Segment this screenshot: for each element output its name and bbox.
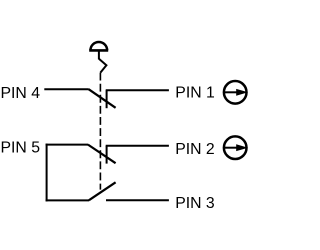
fixed contact tick row 1	[106, 90, 108, 108]
wire PIN 4 left	[44, 88, 89, 90]
actuator spring zigzag	[99, 59, 107, 73]
wire PIN 5 left	[46, 144, 89, 146]
wire bracket bottom horizontal	[46, 199, 90, 201]
wire PIN 2 right	[106, 145, 169, 147]
contact blade row 1 (NC)	[89, 89, 116, 108]
icon circled arrow row 2	[224, 136, 248, 159]
pushbutton actuator head (mushroom dome)	[89, 42, 108, 50]
svg-text:PIN 2: PIN 2	[175, 141, 215, 158]
contact blade row 2 (NC)	[88, 145, 116, 164]
wire PIN 3 right	[106, 199, 169, 201]
fixed contact tick row 2	[106, 146, 108, 164]
icon circled arrow row 1	[224, 81, 248, 104]
contact blade row 3 (NO)	[89, 182, 116, 200]
svg-text:PIN 1: PIN 1	[175, 84, 215, 101]
wire bracket vertical (PIN 5 to bottom contact)	[46, 144, 48, 202]
svg-text:PIN 3: PIN 3	[175, 195, 215, 212]
svg-text:PIN 5: PIN 5	[1, 139, 41, 156]
svg-text:PIN 4: PIN 4	[1, 85, 41, 102]
actuator stem	[98, 52, 100, 60]
dashed actuator linkage line	[99, 73, 101, 190]
wire PIN 1 right	[106, 89, 169, 91]
